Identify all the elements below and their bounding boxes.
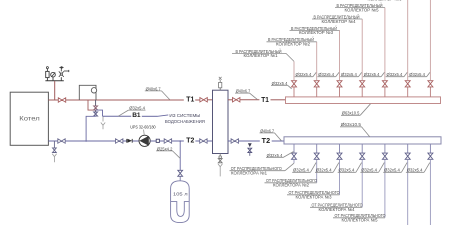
svg-text:КОЛЛЕКТОР №4: КОЛЛЕКТОР №4 <box>322 19 357 24</box>
valve separator outlet <box>233 98 240 102</box>
drop 3 return <box>339 144 341 153</box>
riser 7 supply <box>429 87 431 97</box>
svg-text:105 л: 105 л <box>173 191 188 197</box>
wire separator to T2 right <box>228 140 231 142</box>
supply manifold header <box>286 97 441 104</box>
valve stack upper <box>94 106 98 110</box>
wire stack vertical <box>95 100 97 116</box>
boiler loop pipe <box>79 85 96 100</box>
valve on boiler return <box>58 139 65 143</box>
wire expansion tank stem <box>179 141 181 170</box>
svg-text:КОЛЛЕКТОР №2: КОЛЛЕКТОР №2 <box>276 42 311 47</box>
tank membrane <box>171 202 189 217</box>
valve stack lower <box>94 112 98 116</box>
wire safety group riser (red) <box>54 81 56 100</box>
svg-text:КОЛЛЕКТОР №6: КОЛЛЕКТОР №6 <box>368 0 403 2</box>
svg-text:КОЛЛЕКТОР №3: КОЛЛЕКТОР №3 <box>299 30 334 35</box>
boiler Котел <box>10 92 48 145</box>
svg-text:КОЛЛЕКТОР №1: КОЛЛЕКТОР №1 <box>244 53 279 58</box>
svg-text:КОЛЛЕКТОРА №5: КОЛЛЕКТОРА №5 <box>342 217 379 222</box>
drop 5 return <box>384 144 386 153</box>
wire supply to separator (gap at T1) <box>66 99 184 101</box>
drop 1 return <box>293 144 295 153</box>
expansion tank 105 L <box>171 181 190 223</box>
riser 1 supply <box>293 87 295 97</box>
wire B1 makeup line <box>103 115 132 117</box>
return manifold header <box>284 137 441 144</box>
drop 2 return <box>316 144 318 153</box>
svg-text:Котел: Котел <box>19 117 40 123</box>
drop 6 return <box>407 144 409 153</box>
safety group bar <box>45 80 63 82</box>
pump B1 UPS 32-60/180 <box>139 135 150 146</box>
svg-text:КОЛЛЕКТОРА №2: КОЛЛЕКТОРА №2 <box>273 182 310 187</box>
air vent <box>60 77 62 81</box>
svg-text:T2: T2 <box>262 136 270 145</box>
separator drain <box>219 154 221 156</box>
wire separator to T1 right <box>228 99 233 101</box>
wire to T2 gap <box>172 140 184 142</box>
union square <box>156 139 159 142</box>
svg-text:ВОДОСНАБЖЕНИЯ: ВОДОСНАБЖЕНИЯ <box>165 119 205 124</box>
wire return boiler to valve <box>48 140 57 142</box>
bypass red L <box>88 100 96 110</box>
svg-text:T1: T1 <box>186 94 194 103</box>
safety valve SV <box>46 78 48 81</box>
valve before check <box>116 139 123 143</box>
valve at separator return inlet <box>200 139 207 143</box>
riser 2 supply <box>316 87 318 97</box>
svg-text:КОЛЛЕКТОРА №1: КОЛЛЕКТОРА №1 <box>231 170 268 175</box>
check valve <box>126 139 128 143</box>
drop 4 return <box>361 144 363 153</box>
riser 4 supply <box>361 87 363 97</box>
wire stack bypass right <box>96 110 103 116</box>
svg-text:T2: T2 <box>186 135 194 144</box>
svg-text:B1: B1 <box>132 112 141 119</box>
svg-text:КОЛЛЕКТОР №5: КОЛЛЕКТОР №5 <box>345 7 380 12</box>
valve separator return outlet <box>231 139 238 143</box>
svg-text:T1: T1 <box>261 95 269 104</box>
makeup check branch <box>248 143 252 147</box>
drop 7 return <box>429 144 431 153</box>
valve at separator inlet <box>200 98 207 102</box>
boiler drain branch <box>53 141 55 148</box>
riser 6 supply <box>407 87 409 97</box>
riser 5 supply <box>384 87 386 97</box>
wire supply from boiler to valve <box>48 99 58 101</box>
hydraulic separator <box>213 90 229 153</box>
svg-text:КОЛЛЕКТОРА №3: КОЛЛЕКТОРА №3 <box>296 194 333 199</box>
valve on tank stem <box>178 170 183 176</box>
svg-text:КОЛЛЕКТОРА №4: КОЛЛЕКТОРА №4 <box>319 207 356 212</box>
riser 3 supply <box>339 87 341 97</box>
wire stack to return drop <box>86 116 96 141</box>
pressure gauge <box>52 77 54 81</box>
circulation pump on loop <box>91 88 96 93</box>
drain funnel below stack <box>102 116 104 121</box>
valve after pump <box>164 139 171 143</box>
svg-text:UPS 32-60/180: UPS 32-60/180 <box>130 125 156 130</box>
wire return run <box>65 140 115 142</box>
wire valve to separator <box>207 99 212 101</box>
svg-text:ИЗ СИСТЕМЫ: ИЗ СИСТЕМЫ <box>169 113 200 118</box>
separator air vent <box>219 88 221 90</box>
valve on boiler supply <box>58 98 65 102</box>
